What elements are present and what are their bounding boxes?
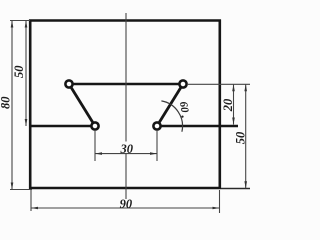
- arrow 30 right: [150, 152, 157, 155]
- extension line below bottom-right corner: [219, 190, 221, 213]
- arrow 50R top: [244, 84, 247, 91]
- angle arc 60deg at bottom-right hole: [161, 101, 182, 132]
- trapezoid left slant: [69, 84, 95, 126]
- bottom extension line to 50 dim: [221, 188, 250, 190]
- trapezoid right slant: [157, 84, 183, 126]
- arrow 30 left: [95, 152, 102, 155]
- extension line right at top-hole level: [188, 83, 250, 85]
- plate outline left edge: [29, 20, 32, 190]
- arrow 50L top: [25, 21, 28, 28]
- dimension line 80: [11, 21, 13, 190]
- dimension line 90: [31, 207, 220, 209]
- extension line below bottom-right hole: [156, 131, 158, 161]
- plate outline top edge: [29, 19, 221, 22]
- arrow 90 left: [31, 207, 38, 210]
- extension line below bottom-left hole: [94, 131, 96, 161]
- svg-text:90: 90: [120, 197, 133, 211]
- arrow 20 bottom: [232, 118, 235, 125]
- svg-text:30: 30: [120, 142, 134, 156]
- arrow 50L bottom: [25, 119, 28, 126]
- extension line top-left: [10, 20, 30, 22]
- dimension line 20: [233, 84, 235, 124]
- dimension line 50 left: [25, 21, 27, 127]
- slot line right (bottom-right hole to beyond right edge): [157, 125, 238, 128]
- arrow 80 top: [11, 21, 14, 28]
- svg-text:20: 20: [221, 98, 235, 112]
- svg-text:50: 50: [233, 131, 247, 144]
- svg-text:80: 80: [0, 96, 12, 109]
- plate outline bottom edge: [29, 187, 221, 190]
- arrow 90 right: [213, 207, 220, 210]
- slot line left (plate edge to bottom-left hole): [31, 125, 95, 128]
- hole top-left: [65, 80, 72, 87]
- vertical centerline: [125, 13, 127, 142]
- vertical centerline lower part: [125, 154, 127, 199]
- extension line below bottom-left corner: [30, 190, 32, 211]
- hole bottom-left: [91, 122, 98, 129]
- plate outline right edge: [219, 20, 222, 190]
- svg-text:50: 50: [12, 65, 26, 78]
- hole bottom-right: [153, 122, 160, 129]
- degree dot: [181, 116, 183, 118]
- arrow 80 bottom: [11, 183, 14, 190]
- dimension line 30: [95, 153, 157, 155]
- hole top-right: [179, 80, 186, 87]
- svg-text:60: 60: [177, 101, 191, 114]
- arrow 50R bottom: [244, 181, 247, 188]
- arrow 20 top: [232, 84, 235, 91]
- trapezoid top line between top holes: [69, 83, 183, 86]
- dimension line 50 right: [245, 84, 247, 188]
- extension line bottom-left (80 dim): [10, 189, 32, 191]
